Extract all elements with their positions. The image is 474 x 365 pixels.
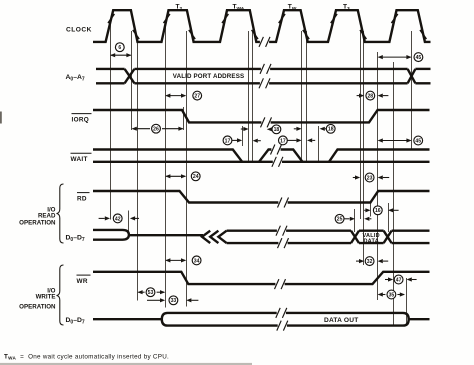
svg-text:DATA OUT: DATA OUT bbox=[324, 317, 358, 324]
svg-text:TWA = One wait cycle automat: TWA = One wait cycle automatically inser… bbox=[4, 354, 169, 361]
parameter circle 45 (lower) bbox=[414, 136, 423, 145]
svg-text:27: 27 bbox=[194, 94, 200, 100]
short vertical reference at WAIT valley 2 hold point bbox=[318, 126, 320, 163]
parameter circle 32 bbox=[365, 257, 374, 266]
svg-text:17: 17 bbox=[225, 138, 231, 144]
svg-text:IORQ: IORQ bbox=[72, 116, 90, 123]
wire D0-D7 read bus left stub rails bbox=[93, 230, 129, 240]
short vertical reference at RD rising edge start bbox=[370, 203, 372, 217]
svg-text:24: 24 bbox=[193, 174, 199, 180]
valid data crossover X right bbox=[384, 231, 392, 243]
wire D0-D7 write tri-state line bbox=[93, 318, 162, 320]
label IORQ with overline bbox=[72, 114, 92, 124]
parameter circle 17 wait setup (first) bbox=[223, 136, 232, 145]
parameter circle 27 bbox=[193, 91, 202, 100]
vertical reference, node t3-mid bbox=[393, 62, 395, 325]
parameter circle 47 bbox=[394, 275, 403, 284]
wire IORQ waveform bbox=[93, 110, 430, 122]
vertical reference from TW clock falling edge top, node tw-fall-top bbox=[301, 31, 303, 163]
break marks on data out bus bbox=[277, 311, 286, 315]
brace I/O read operation bbox=[57, 184, 64, 243]
svg-text:DATA: DATA bbox=[363, 238, 378, 244]
vertical reference at address bus change, node addr-change bbox=[411, 31, 413, 151]
wire address bus tail rails bbox=[415, 68, 430, 70]
svg-text:33: 33 bbox=[171, 298, 177, 304]
parameter circle 16 bbox=[373, 206, 382, 215]
wire data out top rail bbox=[168, 312, 404, 314]
parameter circle 24 bbox=[191, 172, 200, 181]
parameter circle 42 bbox=[113, 214, 122, 223]
scan artifact left edge mark bbox=[0, 112, 2, 124]
wire WAIT bottom rail bbox=[93, 161, 430, 163]
svg-text:6: 6 bbox=[118, 45, 121, 51]
wire A0-A7 address bus top rail bbox=[96, 68, 125, 70]
break marks on WAIT rails bbox=[271, 147, 280, 151]
svg-text:28: 28 bbox=[367, 94, 373, 100]
svg-text:OPERATION: OPERATION bbox=[19, 303, 56, 310]
break marks on address bus bbox=[261, 67, 270, 71]
svg-text:26: 26 bbox=[153, 127, 159, 133]
break mark on RD low line bbox=[278, 200, 287, 204]
svg-text:17: 17 bbox=[280, 138, 286, 144]
arrows for parameter 28 IORQ rise bbox=[357, 94, 389, 98]
brace I/O write operation bbox=[57, 265, 64, 325]
vertical reference from T2 clock falling edge, node t2-fall bbox=[186, 31, 188, 307]
arrow for parameter 26 with inline circle bbox=[132, 127, 184, 131]
arrows for parameter 42 address to data stub bbox=[99, 216, 139, 220]
vertical reference from TWA clock falling edge bottom, node twa-fall-bot bbox=[252, 31, 254, 163]
parameter circle 26 bbox=[152, 124, 161, 133]
arrow for parameter 34 WR delay bbox=[165, 258, 186, 262]
arrows for parameter 33 bbox=[147, 298, 198, 302]
wire D0-D7 read bus rails bbox=[227, 231, 351, 243]
arrow for parameter 6 between t1 rise and fall bbox=[110, 53, 132, 57]
scan artifact bottom edge bbox=[0, 363, 252, 365]
vertical reference from T3 clock falling edge bottom, node t3-fall-bot bbox=[363, 31, 365, 265]
parameter circle 28 bbox=[366, 91, 375, 100]
parameter circle 17 wait setup (second) bbox=[279, 136, 288, 145]
vertical reference from TW clock falling edge bottom, node tw-fall-bot bbox=[306, 31, 308, 163]
parameter circle 18 wait hold (second) bbox=[326, 124, 335, 133]
svg-text:18: 18 bbox=[328, 127, 334, 133]
wire WAIT top rail with sample valleys bbox=[93, 150, 430, 162]
data out bus opening cap bbox=[162, 313, 168, 326]
short vertical reference at read data stub end bbox=[128, 211, 130, 232]
tick marks on clock edges bbox=[108, 14, 426, 39]
svg-text:16: 16 bbox=[375, 208, 381, 214]
wire WR waveform bbox=[93, 272, 430, 284]
svg-text:CLOCK: CLOCK bbox=[66, 27, 92, 34]
wire D0-D7 read tri-state line bbox=[129, 234, 203, 236]
tri-state to driven chevrons on read data bus bbox=[202, 231, 210, 243]
break mark on CLOCK low line bbox=[260, 40, 269, 44]
svg-text:READ: READ bbox=[38, 213, 56, 220]
short vertical reference at WAIT valley 1 start bbox=[242, 126, 244, 146]
arrow for parameter 35 with inline circle bbox=[378, 292, 405, 296]
label WAIT with overline bbox=[71, 153, 92, 163]
wire valid port address top rail bbox=[134, 68, 407, 70]
arrow for parameter 45 address hold (top) bbox=[378, 55, 412, 59]
arrow for parameter 45 (lower) bbox=[378, 138, 412, 142]
parameter circle 35 bbox=[387, 290, 396, 299]
svg-text:35: 35 bbox=[389, 292, 395, 298]
svg-text:OPERATION: OPERATION bbox=[19, 220, 56, 227]
svg-text:VALID PORT ADDRESS: VALID PORT ADDRESS bbox=[173, 73, 244, 80]
arrows for parameter 47 bbox=[385, 277, 417, 281]
inward arrows at TWA falling edge pair bbox=[241, 127, 261, 143]
short vertical reference at data valid end bbox=[388, 203, 390, 232]
vertical reference from T1 clock falling edge top, node t1-fall-top bbox=[131, 31, 133, 130]
arrows for parameter 25 bbox=[344, 217, 371, 221]
label WR with overline bbox=[77, 275, 91, 285]
wire RD waveform bbox=[93, 191, 430, 203]
svg-text:45: 45 bbox=[416, 55, 422, 61]
wire read bus tail rails bbox=[392, 231, 430, 243]
arrow for second 17 bbox=[287, 138, 301, 142]
vertical reference from T3 clock falling edge top, node t3-fall-top bbox=[360, 31, 362, 219]
vertical reference from T1 clock rising edge, node t1-rise bbox=[110, 20, 112, 220]
svg-text:WR: WR bbox=[77, 278, 88, 285]
svg-text:34: 34 bbox=[194, 258, 200, 264]
svg-text:32: 32 bbox=[367, 259, 373, 265]
vertical reference from T1 clock falling edge bottom, node t1-fall-bot bbox=[137, 40, 139, 301]
arrow for second 18 bbox=[320, 127, 327, 131]
short vertical reference at WR hold / data out end bbox=[406, 278, 408, 326]
short vertical reference at IORQ falling edge start bbox=[183, 107, 185, 130]
vertical reference from T2 clock rising edge, node t2-rise bbox=[165, 21, 167, 308]
break mark on WR low line bbox=[275, 282, 284, 286]
arrow for parameter 53 with inline circle bbox=[137, 290, 165, 294]
wire data out bottom rail bbox=[168, 324, 404, 326]
svg-text:42: 42 bbox=[115, 216, 121, 222]
parameter circle 45 (top) bbox=[414, 53, 423, 62]
parameter circle 34 bbox=[192, 256, 201, 265]
svg-text:RD: RD bbox=[77, 195, 87, 202]
svg-text:25: 25 bbox=[337, 217, 343, 223]
svg-text:47: 47 bbox=[396, 277, 402, 283]
svg-text:53: 53 bbox=[148, 290, 154, 296]
inward arrows at TW falling edge pair bbox=[294, 127, 315, 143]
wire D0-D7 write tail line bbox=[409, 318, 430, 320]
parameter circle 33 bbox=[169, 296, 178, 305]
svg-text:23: 23 bbox=[367, 175, 373, 181]
parameter circle 18 wait hold (first) bbox=[272, 125, 281, 134]
label RD with overline bbox=[77, 193, 90, 203]
arrows for parameter 32 WR rise bbox=[356, 259, 388, 263]
arrow for first 18 bbox=[267, 127, 275, 131]
wire valid port address bottom rail bbox=[134, 82, 407, 84]
arrow for parameter 27 IORQ delay bbox=[165, 94, 186, 98]
parameter circle 53 bbox=[146, 288, 155, 297]
break marks on read data bus bbox=[277, 229, 286, 233]
arrows for parameter 16 data hold bbox=[364, 208, 398, 212]
break mark on IORQ low line bbox=[261, 120, 270, 124]
short vertical reference at data valid start bbox=[354, 209, 356, 232]
svg-text:45: 45 bbox=[415, 138, 421, 144]
vertical reference from TWA clock falling edge top, node twa-fall-top bbox=[248, 31, 250, 163]
address bus crossover X at end bbox=[408, 69, 416, 83]
data out bus closing cap bbox=[403, 313, 409, 326]
parameter circle 23 bbox=[365, 173, 374, 182]
arrow for parameter 24 RD delay bbox=[165, 174, 186, 178]
wire A0-A7 address bus bottom rail bbox=[96, 82, 125, 84]
arrows for parameter 23 RD rise bbox=[353, 175, 389, 179]
parameter circle 6 clock width bbox=[115, 43, 124, 52]
parameter circle 25 data setup bbox=[335, 214, 344, 223]
address bus crossover X at T1 bbox=[125, 69, 135, 83]
svg-text:18: 18 bbox=[274, 127, 280, 133]
wire valid data rails bbox=[359, 231, 384, 243]
svg-text:WRITE: WRITE bbox=[36, 294, 56, 301]
vertical reference at IORQ/RD rising edge end, node ctl-rise bbox=[377, 52, 379, 300]
valid data crossover X left bbox=[351, 231, 359, 243]
wire CLOCK waveform bbox=[93, 10, 431, 42]
svg-text:WAIT: WAIT bbox=[71, 156, 88, 163]
arrow for first 17 bbox=[232, 138, 242, 142]
